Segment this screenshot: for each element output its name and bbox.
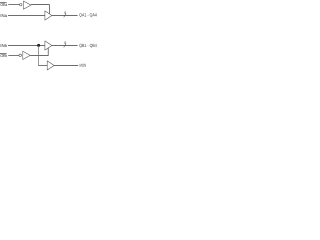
- node INa label: [1, 14, 7, 17]
- bus slash QB: [64, 43, 66, 47]
- bus slash QA: [64, 13, 66, 17]
- node INb label: [1, 44, 7, 47]
- node OEa label: [0, 3, 7, 6]
- inverter U4 input bubble: [19, 54, 22, 57]
- background: [0, 0, 98, 71]
- overline on OEa: [0, 2, 7, 4]
- wire U4 output to enable of buffer U3: [30, 48, 48, 56]
- bus width 4 label QB: [64, 41, 66, 44]
- overline on OEb: [0, 53, 7, 55]
- inverter U4 (OEb): [23, 51, 30, 59]
- wire U2 output to QA pins: [52, 15, 78, 17]
- wire trunk to buffer U5 input: [38, 65, 47, 67]
- buffer U3 (bank B): [45, 41, 52, 50]
- node MON label: [80, 64, 86, 67]
- buffer U2 (bank A): [45, 11, 52, 20]
- wire INa to buffer U2 input: [8, 15, 45, 17]
- wire U1 output to enable of buffer U2: [31, 5, 50, 14]
- inverter U1 input bubble: [20, 3, 22, 5]
- node QA1 - QA4 label: [79, 13, 96, 17]
- wire OEb to inverter U4 input: [8, 55, 19, 57]
- wire U3 output to QB pins: [52, 45, 78, 47]
- junction node dot: [37, 44, 40, 47]
- buffer U5 (monitor): [47, 61, 54, 70]
- wire OEa to inverter U1 input: [8, 4, 19, 6]
- node OEb label: [0, 54, 7, 57]
- node QB1 - QB4 label: [79, 44, 96, 48]
- wire U5 output to MON pin: [54, 65, 78, 67]
- inverter U1 (OEa): [23, 1, 31, 9]
- bus width 4 label QA: [64, 11, 66, 14]
- wire INb to buffer U3 input: [8, 45, 45, 47]
- wire trunk from node to monitor row: [38, 45, 40, 65]
